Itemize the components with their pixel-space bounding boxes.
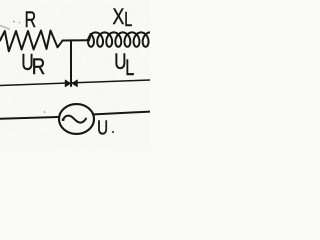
svg-text:R: R <box>25 7 36 32</box>
svg-text:L: L <box>124 8 132 31</box>
wire bottom right <box>94 112 150 115</box>
inductor L (reactance XL) coil <box>89 34 91 40</box>
svg-text:X: X <box>113 4 125 29</box>
svg-text:R: R <box>32 54 46 79</box>
AC source U circle <box>59 104 94 134</box>
wire between resistor and inductor <box>63 39 90 41</box>
sine wave inside source <box>63 116 86 123</box>
wire lead-in remnant left <box>0 26 9 30</box>
wire bottom left <box>0 117 58 119</box>
wire vertical mid junction <box>70 41 72 86</box>
node line UR/UL voltage arrows baseline <box>0 80 150 86</box>
arrowhead UL (points left) <box>72 80 77 87</box>
speckle dot after U <box>112 131 114 133</box>
svg-text:L: L <box>125 55 134 80</box>
arrowhead UR (points right) <box>65 80 70 87</box>
svg-text:U: U <box>97 117 108 140</box>
resistor R zigzag <box>0 31 63 52</box>
